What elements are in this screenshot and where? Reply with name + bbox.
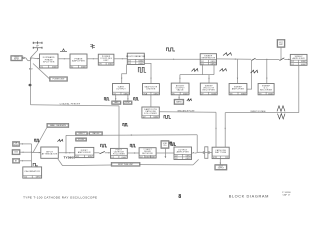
box first amplifier: [75, 147, 94, 158]
wire C to D: [87, 58, 98, 59]
svg-text:6SN7: 6SN7: [211, 61, 217, 63]
svg-text:POWER: POWER: [102, 56, 111, 58]
wire ext box down: [280, 47, 282, 59]
svg-text:EXT: EXT: [279, 42, 282, 44]
svg-text:SWEEP: SWEEP: [295, 56, 304, 58]
square wave on E-L wire: [166, 48, 175, 51]
svg-text:ANT: ANT: [29, 68, 33, 71]
wire E down to gate output: [121, 65, 126, 84]
svg-text:6SN7: 6SN7: [36, 177, 42, 179]
svg-text:POWER UNIT: POWER UNIT: [52, 79, 65, 81]
svg-text:COUPLING: COUPLING: [100, 58, 112, 60]
svg-text:Y SHIFT: Y SHIFT: [143, 149, 152, 151]
svg-text:D.C.: D.C.: [264, 87, 269, 89]
square wave above FCF right: [130, 144, 136, 147]
wire sync arrow down: [165, 148, 167, 158]
wire plates into crt: [203, 151, 213, 153]
label mains bright: [174, 99, 184, 104]
svg-text:FIRST: FIRST: [81, 150, 89, 152]
svg-text:1000: 1000: [14, 152, 18, 154]
sawtooth left of L leg: [192, 69, 199, 72]
wire crt down to supplies: [220, 159, 221, 165]
svg-text:RECTIFIER: RECTIFIER: [260, 89, 273, 91]
wire M down and sweep voltage line: [224, 65, 298, 147]
svg-text:SWEEP: SWEEP: [205, 85, 214, 87]
svg-text:6SN7: 6SN7: [301, 64, 307, 66]
wire direct tap up: [65, 135, 67, 152]
box K sweep dc rectifier: [258, 84, 274, 96]
svg-text:SWEEP: SWEEP: [204, 55, 213, 57]
waveform W below line: [278, 114, 286, 119]
wire coaxial feeder horizontal: [31, 105, 120, 106]
box AT: [13, 159, 20, 164]
switch contact 1: [251, 58, 255, 60]
node feeder connector: [29, 84, 32, 87]
sine wave near attenuator: [57, 139, 63, 141]
svg-text:SPLITTER: SPLITTER: [43, 61, 55, 63]
svg-text:6SN7: 6SN7: [124, 93, 130, 95]
svg-text:VELOCITY: VELOCITY: [203, 87, 215, 89]
label direct: [76, 132, 88, 136]
label power unit: [33, 64, 50, 79]
box cathode ray tube: [212, 147, 229, 159]
box C phase amplifier: [70, 54, 87, 68]
wire B to C: [58, 58, 70, 59]
square wave near calibrator: [33, 163, 38, 166]
square wave on coax drop: [123, 123, 128, 126]
box L sweep generator: [200, 54, 216, 66]
box Y delay network: [139, 148, 156, 159]
label half 6SN7: [76, 138, 87, 141]
svg-text:SWEEP: SWEEP: [234, 86, 243, 88]
svg-text:6SN7: 6SN7: [88, 156, 94, 158]
square wave near cal junction: [35, 139, 40, 142]
wire L outputs merge: [180, 65, 214, 75]
svg-text:OUTPUT: OUTPUT: [178, 149, 188, 151]
svg-text:FIRST TUBE UNIT: FIRST TUBE UNIT: [118, 164, 134, 166]
svg-text:6SN7: 6SN7: [301, 61, 307, 63]
box first cathode follower: [111, 148, 128, 158]
svg-text:6SN7: 6SN7: [138, 63, 144, 65]
square wave right of N: [164, 116, 171, 119]
Y plate waveform lower: [203, 153, 210, 158]
square wave above output amp: [170, 143, 176, 146]
svg-text:COAXIAL FEEDER: COAXIAL FEEDER: [60, 102, 81, 105]
svg-text:INPUT: INPUT: [46, 151, 54, 153]
square wave right of sync box: [170, 142, 174, 144]
svg-text:SYNC: SYNC: [125, 102, 130, 104]
Y plate waveform upper: [203, 147, 210, 152]
wire main to J: [237, 59, 238, 83]
wire attenuator to first amplifier: [58, 152, 75, 153]
square wave left of plug: [104, 98, 109, 101]
box B forward phase splitter: [40, 54, 59, 68]
box sync pulse stack: [161, 141, 169, 149]
svg-text:NETWORK: NETWORK: [142, 153, 154, 155]
svg-text:6SN7: 6SN7: [186, 155, 192, 157]
wire calibrate diagonal: [33, 128, 47, 153]
svg-text:6SN7: 6SN7: [186, 158, 192, 160]
label small calibrate: [47, 123, 69, 127]
svg-text:FOLLOWER: FOLLOWER: [144, 113, 157, 115]
svg-text:INPUT: INPUT: [14, 59, 19, 61]
text drawing number: [282, 192, 290, 197]
wire E to sweep generator: [144, 58, 200, 59]
wire coax down to FCF: [118, 106, 120, 148]
switch contact 2: [280, 58, 285, 61]
svg-text:FOLLOWER: FOLLOWER: [113, 154, 126, 156]
svg-text:P 16180: P 16180: [282, 192, 290, 194]
wire down to H: [179, 75, 180, 84]
sawtooth right of L leg: [220, 69, 227, 72]
svg-text:DP: DP: [36, 46, 39, 48]
label plug right: [123, 101, 132, 105]
svg-text:TY5900: TY5900: [64, 156, 76, 160]
box output amplifier: [174, 147, 192, 160]
wire E to sawtooth limiter: [144, 63, 151, 83]
box J sweep amplifier: [229, 84, 247, 96]
svg-text:BLOCK DIAGRAM: BLOCK DIAGRAM: [229, 194, 269, 199]
box cal volts: [13, 142, 20, 147]
wire F down to plugs: [115, 95, 129, 101]
wire FCF to Y delay: [127, 152, 139, 153]
box G sawtooth limiter: [143, 84, 160, 96]
svg-text:RECTIFIER: RECTIFIER: [203, 89, 216, 91]
svg-text:6SN7: 6SN7: [241, 93, 247, 95]
svg-text:TYPE T-100 CATHODE RAY OSCILLO: TYPE T-100 CATHODE RAY OSCILLOSCOPE: [23, 195, 97, 199]
svg-text:BRILLIANCE PULSE: BRILLIANCE PULSE: [178, 109, 196, 112]
wire first amp to cathode follower: [94, 151, 111, 153]
wire D to E: [114, 58, 127, 59]
svg-text:FIRST: FIRST: [116, 150, 123, 152]
wire down to I: [208, 75, 209, 84]
svg-text:8: 8: [178, 194, 181, 200]
wire first tube unit boundary: [58, 159, 199, 166]
svg-text:6SN7: 6SN7: [211, 93, 217, 95]
sawtooth near switch leg: [251, 70, 258, 73]
box M sweep output amplifier: [290, 54, 307, 65]
svg-text:6SN7: 6SN7: [138, 60, 144, 62]
svg-text:DIRECT: DIRECT: [78, 133, 84, 135]
label plug left: [112, 101, 121, 105]
wire junction down to K: [266, 59, 267, 83]
box F gate output: [113, 84, 130, 96]
wire J output up to switch: [247, 61, 252, 89]
svg-text:OUTPUT: OUTPUT: [175, 87, 185, 89]
sawtooth right of mains label: [187, 99, 192, 101]
waveform M above line: [277, 106, 285, 112]
box E multivibrator: [126, 53, 145, 65]
wire feeder vertical: [30, 59, 32, 105]
box calibrator: [23, 167, 42, 179]
svg-text:6SN7: 6SN7: [183, 93, 189, 95]
square wave below E: [138, 67, 146, 72]
node junction K feed: [266, 59, 267, 60]
antenna dipole symbol: [33, 41, 43, 50]
box H bright up output: [171, 83, 189, 95]
wire calibrator up: [31, 161, 33, 167]
wire direct line across: [66, 135, 197, 152]
svg-text:BRIGHT: BRIGHT: [176, 85, 185, 87]
svg-text:6SN7: 6SN7: [154, 93, 160, 95]
wire L to switch to M: [217, 58, 252, 59]
svg-text:SWEEP VOLTAGE: SWEEP VOLTAGE: [250, 110, 266, 113]
pulse marker A: [60, 49, 67, 52]
square wave above FCF left: [101, 144, 107, 147]
box input terminal: [11, 56, 22, 61]
label eht supplies: [215, 165, 227, 170]
svg-text:6SN7: 6SN7: [150, 156, 156, 158]
node ant junction: [30, 58, 31, 59]
wire H down to mains label: [178, 95, 179, 99]
wire output amp to plates: [192, 152, 203, 153]
wire brilliance pulse line: [159, 112, 216, 147]
box 1000: [12, 150, 20, 155]
wire cal bus: [20, 143, 32, 161]
svg-text:6SN7: 6SN7: [108, 64, 114, 66]
wire into M: [284, 59, 290, 60]
box D power coupling: [98, 54, 114, 65]
svg-text:6SN7: 6SN7: [52, 66, 58, 68]
wire G down to sawtooth CF: [150, 95, 152, 107]
svg-text:UNIT: UNIT: [103, 60, 109, 62]
box input attenuator: [41, 147, 59, 158]
wire input to splitter with loop: [23, 57, 40, 61]
svg-text:TEST: TEST: [14, 57, 18, 59]
node direct tap: [65, 152, 66, 153]
svg-text:CAP 17: CAP 17: [283, 194, 291, 197]
wire antenna downlead: [31, 51, 38, 59]
node cal junction: [31, 152, 32, 153]
wire Y delay to output amplifier: [156, 152, 174, 154]
svg-text:VCR: VCR: [213, 157, 218, 159]
wire junction into attenuator: [32, 152, 41, 153]
label via 1000: [89, 132, 103, 136]
label first tube unit: [111, 162, 140, 166]
wire switch to M: [256, 58, 280, 60]
svg-text:6SN7: 6SN7: [153, 116, 159, 118]
svg-text:6SN7: 6SN7: [121, 157, 127, 159]
square wave right of plug: [134, 98, 139, 101]
svg-text:OUTPUT: OUTPUT: [116, 89, 126, 91]
box I sweep velocity rectifier: [200, 83, 217, 95]
svg-text:6SN7: 6SN7: [81, 66, 87, 68]
svg-text:6SN7: 6SN7: [268, 93, 274, 95]
svg-text:LIMITER: LIMITER: [146, 88, 156, 90]
box N sawtooth cathode follower: [142, 107, 159, 118]
sawtooth above L right: [223, 53, 232, 56]
spike waveform: [90, 44, 94, 49]
node direct line junction: [131, 134, 132, 135]
box ext sweep terminal: [277, 39, 285, 47]
svg-text:SWEEP: SWEEP: [262, 85, 271, 87]
